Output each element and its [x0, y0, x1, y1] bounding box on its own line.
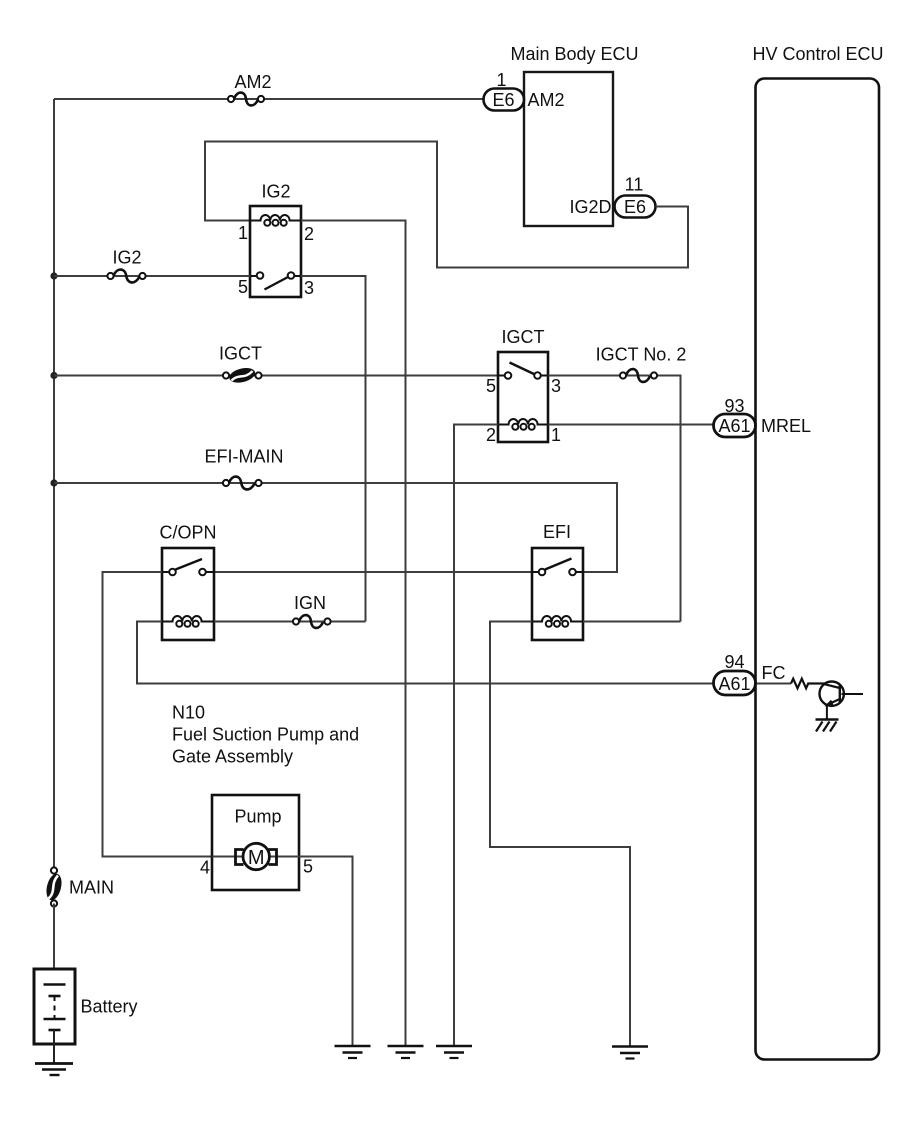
- svg-text:11: 11: [625, 175, 644, 195]
- resistor base resistor: [791, 679, 825, 689]
- node junction IGCT tap: [50, 372, 57, 379]
- fuse EFI-MAIN: [205, 447, 284, 490]
- node junction IG2 tap: [50, 272, 57, 279]
- switch contacts EFI: [532, 571, 583, 573]
- svg-text:3: 3: [551, 376, 561, 396]
- wire MREL row: [548, 424, 714, 426]
- svg-text:IGCT No. 2: IGCT No. 2: [596, 345, 687, 365]
- svg-text:IGN: IGN: [294, 593, 326, 613]
- chassis ground at transistor emitter: [816, 720, 839, 732]
- svg-text:MREL: MREL: [761, 416, 811, 436]
- ground for IG2 relay coil: [388, 1046, 424, 1058]
- svg-text:Pump: Pump: [234, 807, 281, 827]
- fuse IGCT No. 2: [596, 345, 687, 382]
- switch contacts IG2: [250, 275, 301, 277]
- svg-text:IG2: IG2: [261, 182, 290, 202]
- fusible link IGCT: [219, 344, 262, 386]
- svg-text:FC: FC: [762, 663, 786, 683]
- label N10 Fuel Suction Pump and Gate Assembly: [172, 703, 359, 767]
- wire EFI coil left to ground: [490, 622, 630, 1047]
- ground for pump: [335, 1046, 371, 1058]
- svg-text:EFI: EFI: [543, 522, 571, 542]
- svg-text:2: 2: [304, 224, 314, 244]
- ECU box HV Control ECU: [752, 44, 883, 1060]
- node junction EFI-MAIN tap: [50, 479, 57, 486]
- relay IG2: [238, 182, 314, 299]
- motor M pump: [200, 843, 313, 877]
- ground for IGCT relay coil: [436, 1046, 472, 1058]
- fuse IGN: [293, 593, 331, 628]
- wire IGCT fuse row: [54, 375, 498, 377]
- switch contacts IGCT: [498, 375, 548, 377]
- pump box N10: [212, 795, 299, 890]
- wire EFI coil right to IGCT No.2: [583, 621, 681, 623]
- wire EFI switch to C/OPN switch: [214, 571, 532, 573]
- svg-text:3: 3: [304, 278, 314, 298]
- coil inside IGCT: [498, 419, 548, 425]
- connector A61 pin 94 (FC): [714, 652, 786, 695]
- transistor Q1 (HV ECU FC driver): [820, 682, 864, 720]
- svg-text:2: 2: [486, 425, 496, 445]
- svg-text:M: M: [248, 847, 265, 869]
- svg-text:IGCT: IGCT: [502, 327, 545, 347]
- ground for battery: [35, 1064, 73, 1076]
- wire MAIN link to battery: [53, 904, 55, 985]
- connector E6 pin 1 (AM2): [484, 70, 565, 111]
- svg-text:94: 94: [724, 652, 744, 672]
- coil inside EFI: [532, 616, 583, 622]
- svg-text:A61: A61: [718, 416, 750, 436]
- fuse AM2: [228, 72, 272, 105]
- wire IGCT No.2 row: [548, 376, 681, 622]
- svg-text:Gate Assembly: Gate Assembly: [172, 747, 293, 767]
- svg-text:Fuel Suction Pump and: Fuel Suction Pump and: [172, 725, 359, 745]
- svg-text:1: 1: [238, 223, 248, 243]
- connector E6 pin 11 (IG2D): [569, 175, 655, 218]
- svg-text:E6: E6: [492, 90, 514, 110]
- wire AM2 row: [54, 98, 484, 100]
- svg-text:A61: A61: [718, 674, 750, 694]
- wire IG2 fuse row: [54, 275, 250, 277]
- svg-text:MAIN: MAIN: [69, 878, 114, 898]
- svg-text:AM2: AM2: [234, 72, 271, 92]
- svg-text:IGCT: IGCT: [219, 344, 262, 364]
- ECU box Main Body ECU: [510, 44, 638, 226]
- connector A61 pin 93 (MREL): [714, 396, 812, 437]
- svg-text:5: 5: [303, 857, 313, 877]
- svg-text:C/OPN: C/OPN: [159, 523, 216, 543]
- svg-text:93: 93: [724, 396, 744, 416]
- wire C/OPN coil to FC: [137, 622, 714, 684]
- svg-text:N10: N10: [172, 703, 205, 723]
- wire IG2 switch pin3 down to IGN: [301, 276, 366, 622]
- relay IGCT: [486, 327, 561, 445]
- wire pump pin5 to ground: [299, 857, 353, 1047]
- svg-text:AM2: AM2: [528, 90, 565, 110]
- fuse IG2: [107, 248, 145, 283]
- svg-text:5: 5: [486, 376, 496, 396]
- wire FC base lead: [756, 683, 792, 685]
- switch contacts C/OPN: [162, 571, 214, 573]
- relay C/OPN: [159, 523, 216, 641]
- svg-text:IG2D: IG2D: [569, 197, 611, 217]
- svg-text:Battery: Battery: [81, 997, 138, 1017]
- svg-text:1: 1: [551, 425, 561, 445]
- svg-text:Main Body ECU: Main Body ECU: [510, 44, 638, 64]
- relay EFI: [532, 522, 583, 640]
- ground for EFI relay coil: [612, 1047, 648, 1059]
- wire left battery bus vertical: [53, 99, 55, 870]
- wire IG2D to IG2 coil pin1: [205, 142, 688, 268]
- wire EFI-MAIN row: [54, 483, 617, 572]
- coil inside C/OPN: [162, 616, 214, 622]
- wire IGN row: [214, 621, 366, 623]
- battery: [34, 969, 138, 1064]
- svg-text:1: 1: [496, 70, 506, 90]
- wire C/OPN switch to pump pin4: [103, 572, 213, 857]
- fusible link MAIN: [44, 867, 114, 906]
- svg-text:EFI-MAIN: EFI-MAIN: [205, 447, 284, 467]
- svg-text:IG2: IG2: [112, 248, 141, 268]
- svg-text:HV Control ECU: HV Control ECU: [752, 44, 883, 64]
- svg-text:5: 5: [238, 277, 248, 297]
- svg-text:4: 4: [200, 858, 210, 878]
- coil inside IG2: [250, 215, 301, 221]
- svg-text:E6: E6: [624, 197, 646, 217]
- wire IG2 coil pin2 to ground: [301, 221, 406, 1047]
- wire IGCT coil pin2 to ground: [454, 425, 498, 1047]
